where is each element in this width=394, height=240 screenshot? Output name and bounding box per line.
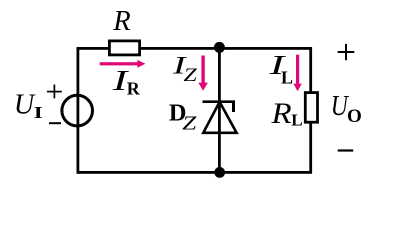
svg-text:R: R	[270, 96, 291, 129]
svg-text:L: L	[291, 111, 302, 130]
svg-text:U: U	[14, 89, 36, 120]
svg-text:R: R	[127, 78, 141, 98]
svg-text:I: I	[34, 104, 43, 123]
svg-text:Z: Z	[182, 112, 197, 134]
svg-text:Z: Z	[184, 64, 198, 85]
svg-text:R: R	[112, 6, 130, 37]
svg-text:O: O	[347, 106, 362, 127]
svg-text:L: L	[281, 68, 293, 88]
